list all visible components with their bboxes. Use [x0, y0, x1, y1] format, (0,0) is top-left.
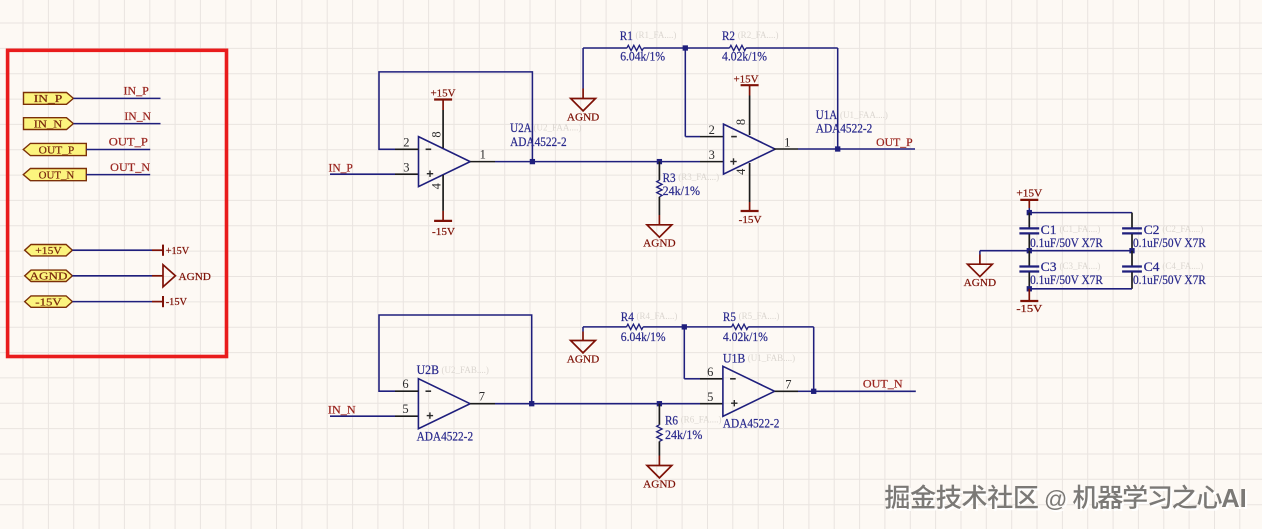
wire R6 node to U1B pin 5	[659, 403, 723, 405]
svg-text:(R5_FA....): (R5_FA....)	[739, 311, 780, 321]
svg-text:U2A: U2A	[510, 120, 532, 135]
svg-text:AI: AI	[1221, 485, 1247, 513]
svg-text:(C4_FA....): (C4_FA....)	[1162, 261, 1203, 271]
wire +15V stub	[1028, 200, 1030, 213]
faint part id R6	[681, 414, 722, 424]
svg-text:-15V: -15V	[739, 214, 762, 226]
svg-text:OUT_P: OUT_P	[39, 145, 75, 156]
svg-text:ADA4522-2: ADA4522-2	[723, 416, 780, 431]
designator C2	[1144, 222, 1160, 237]
svg-text:6.04k/1%: 6.04k/1%	[620, 49, 665, 64]
power -15V at U2A	[432, 221, 455, 238]
U2B pin 6 number	[402, 377, 408, 391]
U2B output wire pin 7	[470, 403, 532, 405]
svg-text:4: 4	[734, 168, 748, 175]
U2B pin 5 number	[402, 402, 408, 416]
U2A pin 1 number	[480, 148, 486, 162]
svg-text:AGND: AGND	[964, 277, 996, 289]
U2A pin 4 power wire	[442, 175, 444, 221]
U2B feedback wire (output to pin 6)	[379, 315, 532, 404]
faint part id C2	[1162, 224, 1203, 234]
svg-text:IN_N: IN_N	[124, 111, 151, 123]
op-amp U2B	[418, 379, 470, 429]
U1A pin 1 number	[784, 135, 790, 149]
value R4 6.04k/1%	[621, 329, 666, 344]
svg-text:6.04k/1%: 6.04k/1%	[621, 329, 666, 344]
U1A pin 8 number (rotated)	[734, 119, 748, 125]
svg-text:OUT_N: OUT_N	[863, 379, 903, 391]
svg-text:+15V: +15V	[734, 73, 759, 85]
ground AGND (cap bank)	[964, 264, 996, 289]
designator R1	[620, 28, 633, 43]
wire OUT_N	[86, 174, 150, 176]
port OUT_N	[23, 169, 86, 182]
net label IN_N	[124, 111, 151, 123]
svg-text:R2: R2	[722, 28, 735, 43]
resistor R4	[583, 324, 684, 329]
net label IN_P (at U2A input)	[329, 163, 353, 175]
svg-text:IN_N: IN_N	[328, 405, 357, 417]
power -15V at U1A	[739, 211, 762, 226]
faint part id R1	[636, 30, 677, 40]
ground AGND (below R1 left)	[567, 99, 599, 124]
watermark text	[885, 484, 1249, 514]
svg-text:AGND: AGND	[179, 271, 211, 283]
svg-text:7: 7	[479, 390, 485, 404]
value ADA4522-2 (U1B)	[723, 416, 780, 431]
wire top rail to C2	[1029, 212, 1132, 214]
power symbol +15V (bar)	[163, 245, 189, 257]
faint part id C4	[1162, 261, 1203, 271]
svg-text:R6: R6	[665, 412, 678, 427]
capacitor C4	[1122, 251, 1142, 289]
value ADA4522-2 (U1A)	[816, 121, 873, 136]
red highlight box around port definitions	[8, 50, 227, 356]
net label OUT_N	[110, 162, 151, 174]
designator R4	[621, 309, 634, 324]
svg-text:5: 5	[402, 402, 408, 416]
junction bottom rail	[1027, 286, 1032, 291]
capacitor C2	[1122, 213, 1142, 251]
wire AGND riser to R1	[582, 48, 584, 99]
designator R2	[722, 28, 735, 43]
power +15V at U2A	[431, 88, 456, 100]
svg-text:+15V: +15V	[1016, 188, 1042, 200]
svg-text:8: 8	[430, 131, 444, 137]
svg-text:-15V: -15V	[166, 296, 187, 308]
value R6 24k/1%	[665, 427, 703, 442]
U1A pin 8 power wire	[749, 85, 751, 135]
net label OUT_P	[109, 137, 148, 149]
value R1 6.04k/1%	[620, 49, 665, 64]
U2A pin 8 number (rotated)	[430, 131, 444, 137]
wire OUT_P	[86, 149, 150, 151]
junction R3 node	[657, 159, 662, 164]
svg-text:AGND: AGND	[30, 272, 68, 283]
U1B feedback wire (R5 right to output)	[813, 327, 815, 391]
op-amp U1B	[723, 366, 775, 416]
value R2 4.02k/1%	[722, 49, 767, 64]
wire -15V	[72, 301, 163, 303]
U1B output wire pin 7	[775, 390, 814, 392]
svg-text:0.1uF/50V X7R: 0.1uF/50V X7R	[1030, 272, 1103, 287]
power +15V at U1A	[734, 73, 759, 85]
wire -15V stub	[1028, 289, 1030, 301]
designator C4	[1144, 259, 1160, 274]
wire U2B output to R6 node	[532, 403, 660, 405]
svg-text:(R3_FA....): (R3_FA....)	[678, 172, 719, 182]
faint part id R3	[678, 172, 719, 182]
wire AGND drop at cap bank	[979, 251, 981, 265]
U2A pin 4 number (rotated)	[429, 182, 443, 189]
svg-text:@: @	[1044, 486, 1067, 512]
U1A pin 2 number	[709, 123, 715, 137]
wire junction to U1A pin 2	[685, 48, 723, 137]
value C4 0.1uF/50V X7R	[1133, 272, 1206, 287]
ground AGND (below R6)	[643, 466, 675, 491]
port -15V	[25, 296, 73, 308]
faint part id R2	[738, 30, 779, 40]
value C3 0.1uF/50V X7R	[1030, 272, 1103, 287]
U1A pin 3 number	[709, 148, 715, 162]
wire AGND	[72, 275, 163, 277]
svg-text:IN_P: IN_P	[124, 86, 149, 98]
svg-text:ADA4522-2: ADA4522-2	[816, 121, 873, 136]
port IN_P	[24, 93, 74, 106]
net label IN_P	[124, 86, 149, 98]
svg-text:IN_N: IN_N	[34, 119, 63, 130]
svg-text:R1: R1	[620, 28, 633, 43]
resistor R5	[684, 324, 813, 329]
svg-text:8: 8	[734, 119, 748, 125]
svg-text:4.02k/1%: 4.02k/1%	[723, 329, 768, 344]
ground AGND (below R4 left)	[567, 341, 599, 366]
svg-text:(C2_FA....): (C2_FA....)	[1162, 224, 1203, 234]
svg-text:(R2_FA....): (R2_FA....)	[738, 30, 779, 40]
value C2 0.1uF/50V X7R	[1133, 235, 1206, 250]
junction R4/R5/U1B pin6	[682, 324, 687, 329]
U1B pin 5 number	[707, 390, 713, 404]
op-amp U1A	[724, 124, 776, 174]
designator R3	[663, 170, 676, 185]
svg-text:0.1uF/50V X7R: 0.1uF/50V X7R	[1030, 235, 1103, 250]
svg-text:6: 6	[402, 377, 408, 391]
U1A pin 4 number (rotated)	[734, 168, 748, 175]
svg-text:0.1uF/50V X7R: 0.1uF/50V X7R	[1133, 272, 1206, 287]
junction C2/C4 middle	[1129, 248, 1134, 253]
U1A feedback wire (R2 right to output)	[837, 48, 839, 149]
wire R3 node to U1A pin 3	[659, 161, 723, 163]
designator U1B	[723, 350, 746, 365]
svg-text:IN_P: IN_P	[34, 94, 63, 105]
svg-text:+15V: +15V	[166, 245, 190, 257]
value C1 0.1uF/50V X7R	[1030, 235, 1103, 250]
svg-text:5: 5	[707, 390, 713, 404]
svg-text:(C1_FA....): (C1_FA....)	[1060, 224, 1101, 234]
U2B pin 7 number	[479, 390, 485, 404]
net label IN_N (at U2B input)	[328, 405, 357, 417]
net label OUT_N	[863, 379, 903, 391]
U1B pin 7 number	[785, 377, 791, 391]
svg-text:AGND: AGND	[643, 238, 675, 250]
value R5 4.02k/1%	[723, 329, 768, 344]
svg-text:3: 3	[709, 148, 715, 162]
svg-text:6: 6	[707, 365, 713, 379]
svg-text:(U1_FAA....): (U1_FAA....)	[840, 110, 888, 120]
svg-text:AGND: AGND	[567, 111, 599, 123]
wire AGND riser to R4	[582, 327, 584, 341]
svg-text:(U2_FAB....): (U2_FAB....)	[442, 365, 489, 375]
svg-text:0.1uF/50V X7R: 0.1uF/50V X7R	[1133, 235, 1206, 250]
wire junction to U1B pin 6	[684, 327, 723, 379]
junction C1/C3 middle	[1027, 248, 1032, 253]
svg-text:R5: R5	[723, 309, 736, 324]
svg-text:-15V: -15V	[35, 297, 62, 308]
wire IN_P to U2A pin3	[330, 173, 419, 175]
U2A output wire pin 1	[470, 161, 532, 163]
svg-text:24k/1%: 24k/1%	[663, 183, 701, 198]
designator C1	[1041, 222, 1057, 237]
ground AGND (below R3)	[643, 225, 675, 250]
svg-text:7: 7	[785, 377, 791, 391]
svg-text:2: 2	[403, 135, 409, 149]
U2A pin 3 number	[403, 160, 409, 174]
junction R1/R2/U1A pin2	[683, 45, 688, 50]
capacitor C1	[1019, 213, 1039, 251]
wire middle rail	[980, 250, 1132, 252]
junction U2B output/feedback	[529, 401, 534, 406]
faint part id C3	[1060, 261, 1101, 271]
resistor R1	[583, 45, 685, 50]
op-amp U2A	[419, 137, 471, 187]
svg-text:(R4_FA....): (R4_FA....)	[637, 311, 678, 321]
wire OUT_P	[838, 148, 915, 150]
wire bottom rail	[1029, 288, 1132, 290]
wire +15V	[72, 249, 163, 251]
power -15V at cap bank	[1016, 301, 1042, 315]
designator U2A	[510, 120, 532, 135]
U1B pin 6 number	[707, 365, 713, 379]
junction R6 node	[657, 401, 662, 406]
U2A feedback wire (output to pin 2)	[379, 72, 532, 162]
svg-text:AGND: AGND	[567, 353, 599, 365]
net label OUT_P	[876, 137, 912, 149]
wire IN_N to U2B pin5	[330, 415, 418, 417]
value ADA4522-2 (U2A)	[510, 134, 566, 149]
svg-text:ADA4522-2: ADA4522-2	[417, 428, 474, 443]
junction U1B output	[811, 389, 816, 394]
resistor R3	[657, 162, 662, 225]
capacitor C3	[1019, 251, 1039, 289]
svg-text:OUT_N: OUT_N	[110, 162, 151, 174]
designator U2B	[417, 362, 440, 377]
svg-text:24k/1%: 24k/1%	[665, 427, 703, 442]
faint part id R5	[739, 311, 780, 321]
junction top rail	[1027, 210, 1032, 215]
svg-text:AGND: AGND	[643, 478, 675, 490]
svg-text:R4: R4	[621, 309, 634, 324]
U2A pin 8 power wire	[442, 100, 444, 149]
svg-text:OUT_P: OUT_P	[109, 137, 148, 149]
port IN_N	[24, 118, 74, 131]
U1A output wire pin 1	[774, 148, 838, 150]
svg-text:4.02k/1%: 4.02k/1%	[722, 49, 767, 64]
wire OUT_N	[814, 390, 916, 392]
svg-text:OUT_N: OUT_N	[39, 170, 75, 181]
U2A pin 2 number	[403, 135, 409, 149]
svg-text:OUT_P: OUT_P	[876, 137, 912, 149]
faint part id U1B	[748, 353, 795, 363]
wire IN_N	[73, 123, 160, 125]
faint part id C1	[1060, 224, 1101, 234]
svg-text:(U2_FAA....): (U2_FAA....)	[534, 123, 582, 133]
svg-text:(R1_FA....): (R1_FA....)	[636, 30, 677, 40]
wire U2A output to R3 node	[532, 161, 659, 163]
svg-text:U1B: U1B	[723, 350, 746, 365]
svg-text:+15V: +15V	[35, 246, 62, 257]
svg-text:U2B: U2B	[417, 362, 440, 377]
faint part id U2A	[534, 123, 582, 133]
power +15V at cap bank	[1016, 188, 1042, 200]
faint part id R4	[637, 311, 678, 321]
resistor R6	[657, 404, 662, 466]
svg-text:3: 3	[403, 160, 409, 174]
port OUT_P	[23, 143, 86, 156]
port AGND	[25, 270, 73, 282]
resistor R2	[685, 45, 837, 50]
designator R6	[665, 412, 678, 427]
svg-text:(U1_FAB....): (U1_FAB....)	[748, 353, 795, 363]
svg-text:(C3_FA....): (C3_FA....)	[1060, 261, 1101, 271]
junction U2A output/feedback	[530, 159, 535, 164]
power symbol AGND (open triangle)	[163, 265, 211, 287]
faint part id U2B	[442, 365, 489, 375]
designator C3	[1041, 259, 1057, 274]
svg-text:4: 4	[429, 182, 443, 189]
wire IN_P	[73, 97, 160, 99]
svg-text:-15V: -15V	[1016, 303, 1042, 315]
faint part id U1A	[840, 110, 888, 120]
designator U1A	[816, 107, 838, 122]
svg-text:1: 1	[784, 135, 790, 149]
junction U1A output	[835, 146, 840, 151]
svg-text:IN_P: IN_P	[329, 163, 353, 175]
designator R5	[723, 309, 736, 324]
svg-text:ADA4522-2: ADA4522-2	[510, 134, 566, 149]
value ADA4522-2 (U2B)	[417, 428, 474, 443]
svg-text:2: 2	[709, 123, 715, 137]
port +15V	[25, 245, 73, 257]
svg-text:-15V: -15V	[432, 226, 455, 238]
svg-text:1: 1	[480, 148, 486, 162]
U1A pin 4 power wire	[749, 163, 751, 211]
svg-text:+15V: +15V	[431, 88, 456, 100]
value R3 24k/1%	[663, 183, 701, 198]
power symbol -15V (bar)	[163, 296, 187, 308]
svg-text:(R6_FA....): (R6_FA....)	[681, 414, 722, 424]
